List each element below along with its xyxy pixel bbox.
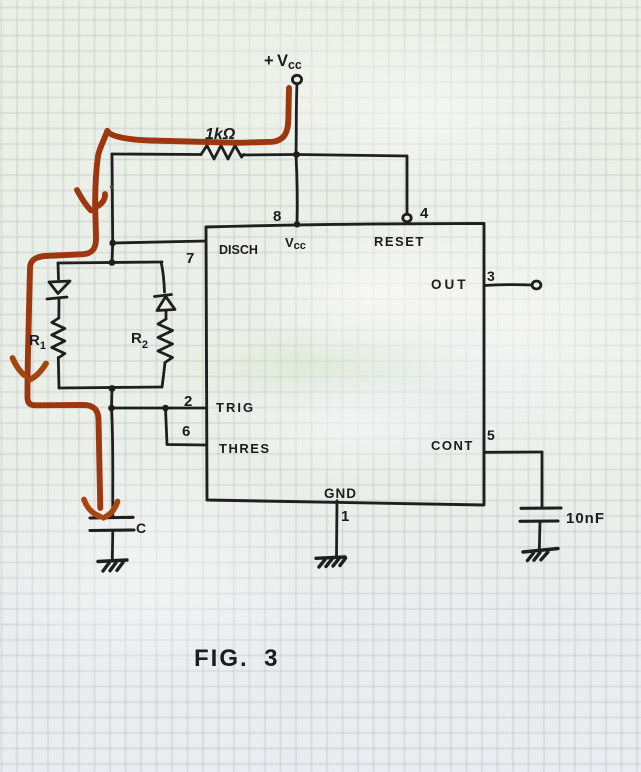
red arrowhead left (on vertical at y~368) [13, 358, 26, 376]
svg-text:RESET: RESET [374, 234, 425, 249]
junction node THRES branch [162, 405, 169, 412]
wire down to pin 4 [406, 156, 409, 214]
svg-text:3: 3 [487, 268, 495, 284]
wire top rail middle segment [241, 153, 296, 156]
junction node TRIG tee [108, 405, 115, 412]
diode D2 triangle [157, 297, 175, 311]
wire vertical box bottom to TRIG node [110, 389, 113, 409]
wire pin 6 THRES L-shape [166, 408, 206, 445]
svg-text:FIG. 3: FIG. 3 [194, 645, 279, 672]
svg-text:2: 2 [184, 393, 192, 410]
IC box U1 555 [206, 223, 484, 505]
svg-text:Vcc: Vcc [285, 235, 306, 252]
svg-text:+ Vcc: + Vcc [264, 52, 302, 72]
svg-text:10nF: 10nF [566, 510, 605, 527]
svg-text:1: 1 [341, 508, 349, 525]
wire branch box top [58, 262, 162, 263]
terminal +Vcc [292, 75, 301, 83]
wire branch box bottom [59, 387, 162, 388]
svg-text:1kΩ: 1kΩ [205, 126, 236, 143]
junction node branch box top [109, 259, 116, 266]
wire top rail right segment to pin4 corner [296, 155, 407, 157]
wire pin 2 TRIG [112, 407, 207, 410]
wire 10nF to ground [538, 521, 542, 550]
red arrowhead mid (on vertical at y~205) [77, 190, 91, 211]
wire TRIG node down to capacitor C [112, 408, 113, 517]
ground under 10nF [523, 549, 558, 553]
svg-text:DISCH: DISCH [219, 243, 258, 257]
svg-text:7: 7 [186, 250, 194, 267]
wire CONT down to 10nF [541, 452, 544, 507]
svg-text:OUT: OUT [431, 277, 469, 292]
svg-text:THRES: THRES [219, 441, 271, 456]
resistor R2 zigzag [158, 319, 173, 363]
wire pin 5 CONT horizontal [484, 451, 542, 454]
junction node branch box bottom [109, 385, 116, 392]
wire pin 8 Vcc into IC [296, 155, 297, 225]
stray pen dot [110, 185, 113, 188]
wire left vertical from top rail [111, 154, 114, 243]
wire top rail left segment [112, 153, 201, 156]
capacitor 10nF top plate [521, 506, 561, 509]
svg-text:C: C [136, 520, 146, 536]
svg-text:R1: R1 [29, 332, 46, 352]
capacitor C top plate [90, 516, 133, 520]
ground under C [98, 560, 127, 562]
wire D1 to R1 [57, 298, 60, 318]
wire short vertical to branch box top [111, 243, 114, 263]
junction node at top rail / Vcc [293, 151, 300, 158]
resistor 1k zigzag [201, 146, 244, 160]
wire C to ground [111, 531, 114, 561]
svg-text:TRIG: TRIG [216, 400, 255, 415]
wire R2 to box bottom [162, 363, 165, 388]
wire R1 to box bottom [57, 358, 61, 389]
capacitor 10nF bottom plate [520, 519, 558, 522]
svg-text:8: 8 [273, 208, 281, 225]
diode D1 triangle [49, 281, 70, 294]
terminal OUT open circle [532, 281, 541, 289]
diode D1 cathode bar [47, 297, 67, 299]
wire right branch to diode D2 [161, 262, 165, 292]
wire pin 1 GND [335, 501, 338, 556]
pin 4 open circle [403, 214, 411, 222]
wire pin 7 DISCH [113, 241, 206, 243]
svg-text:CONT: CONT [431, 438, 474, 453]
diode D2 cathode bar [155, 295, 172, 297]
red marker current path [27, 88, 289, 508]
ground under pin 1 [316, 557, 345, 558]
svg-text:GND: GND [324, 486, 357, 501]
svg-text:5: 5 [487, 427, 495, 443]
red arrowhead final (above capacitor C) [84, 500, 100, 517]
wire D2 to R2 [165, 311, 168, 320]
wire pin 3 OUT [484, 283, 532, 287]
wire left branch to diode D1 [57, 263, 60, 279]
junction node pin7 tee [109, 240, 116, 247]
svg-text:6: 6 [182, 423, 190, 440]
svg-text:R2: R2 [131, 330, 148, 351]
wire Vcc terminal to top rail [296, 84, 297, 154]
junction node pin 8 at IC edge [294, 221, 300, 227]
svg-text:4: 4 [420, 205, 429, 222]
resistor R1 zigzag [52, 318, 65, 358]
capacitor C bottom plate [90, 528, 134, 532]
